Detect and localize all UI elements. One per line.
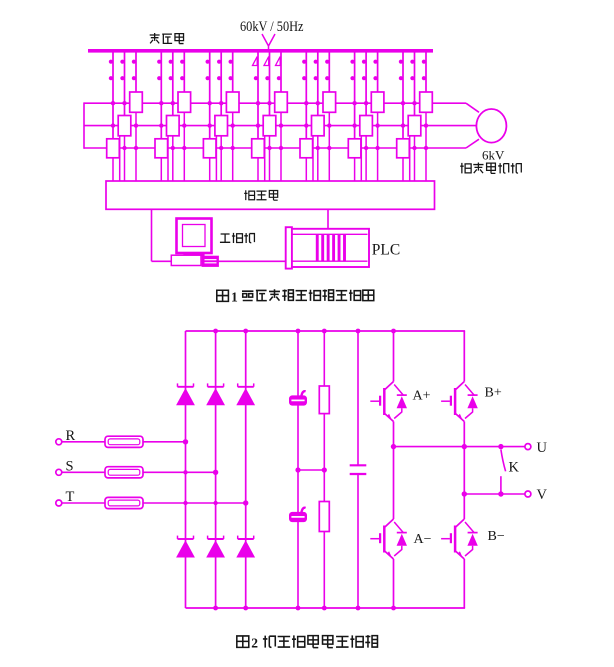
winding symbols group 5 (302, 60, 306, 64)
fuse R (105, 436, 143, 447)
phase chain bus 2 (84, 125, 476, 127)
fig2 top DC rail (186, 330, 466, 332)
control fibre drops group 5 (305, 158, 307, 181)
power cell group 6 row 1 (371, 92, 384, 112)
fig2 left rail / rectifier leg 1 (185, 331, 187, 608)
winding symbols group 3 (206, 60, 210, 64)
junction dots group 5 (304, 101, 308, 105)
winding symbols group 2 (157, 60, 161, 64)
snubber branch 2 (resistors) (323, 331, 325, 386)
input terminal R (56, 439, 62, 445)
PLC module stripes (316, 234, 319, 261)
transformer secondary group 4 wires (257, 51, 259, 139)
junction dots group 1 (111, 101, 115, 105)
phase chain bus 1 (84, 102, 466, 104)
power cell group 3 row 1 (226, 92, 239, 112)
transformer primary bus (88, 49, 433, 53)
power cell group 7 row 3 (397, 139, 410, 158)
B column wires (463, 331, 465, 382)
power cell group 5 row 2 (312, 116, 325, 136)
label 异步电动机 (460, 162, 521, 173)
power cell group 2 row 1 (178, 92, 191, 112)
svg-text:K: K (509, 460, 520, 476)
fuse T (105, 497, 143, 508)
junction dot R (183, 439, 188, 444)
power cell group 2 row 2 (167, 116, 180, 136)
power cell group 3 row 3 (203, 139, 216, 158)
fig2 bottom DC rail (186, 607, 466, 609)
junction dots group 7 (401, 101, 405, 105)
PLC inner rails (292, 233, 368, 235)
svg-text:1: 1 (231, 290, 238, 305)
svg-text:A+: A+ (413, 389, 431, 404)
monitor stand (184, 253, 204, 255)
junction dot S (213, 470, 218, 475)
phase chain bus 3 (84, 147, 466, 149)
wire controller to industrial PC / PLC (151, 209, 153, 261)
rectifier leg 2 (215, 331, 217, 608)
output line V (464, 493, 525, 495)
control fibre drops group 4 (257, 158, 259, 181)
IGBT U-A- lower left (385, 519, 394, 559)
fuse S (105, 467, 143, 478)
snubber link (298, 469, 324, 471)
label transformer 变压器 (150, 33, 184, 44)
svg-text:U: U (537, 440, 548, 456)
IGBT U-A+ upper left (385, 382, 394, 422)
control fibre drops group 2 (160, 158, 162, 181)
PLC box (286, 229, 369, 267)
transformer secondary group 7 wires (402, 51, 404, 139)
transformer secondary group 1 wires (112, 51, 114, 139)
rectifier diode bottom leg 3 (238, 538, 254, 540)
power cell group 1 row 1 (130, 92, 143, 112)
junction dots group 4 (256, 101, 260, 105)
power cell group 4 row 3 (252, 139, 265, 158)
transformer secondary group 5 wires (305, 51, 307, 139)
output line U (394, 446, 526, 448)
winding symbols group 7 (399, 60, 403, 64)
power cell group 4 row 2 (263, 116, 276, 136)
star-point vertical (left) (83, 102, 85, 148)
rectifier diode top leg 3 (238, 386, 254, 388)
keyboard/system unit (171, 255, 201, 265)
DC-link capacitor (357, 331, 359, 465)
power cell group 4 row 1 (275, 92, 288, 112)
winding symbols group 4 (253, 57, 258, 66)
motor 6kV induction motor (476, 109, 506, 143)
power cell group 6 row 3 (348, 139, 361, 158)
input wire T (62, 502, 246, 504)
bypass contact K (501, 450, 506, 472)
supply Y-drop to bus (262, 34, 275, 52)
wire controller to PLC drop (327, 209, 329, 229)
control fibre drops group 7 (402, 158, 404, 181)
IGBT U-B- lower right (456, 519, 465, 559)
caption 图2 功率单元电路结构 (237, 636, 249, 647)
control fibre drops group 3 (209, 158, 211, 181)
mouse unit (202, 256, 218, 266)
power cell group 2 row 3 (155, 139, 168, 158)
junction dots group 2 (159, 101, 163, 105)
power cell group 1 row 3 (107, 139, 120, 158)
terminal U (525, 444, 531, 450)
power cell group 7 row 2 (408, 116, 421, 136)
input wire R (62, 441, 186, 443)
input wire S (62, 471, 216, 473)
transformer secondary group 6 wires (354, 51, 356, 139)
junction dots group 3 (208, 101, 212, 105)
power cell group 6 row 2 (360, 116, 373, 136)
svg-text:A−: A− (414, 532, 432, 547)
rectifier diode bottom leg 1 (178, 538, 194, 540)
terminal V (525, 491, 531, 497)
rectifier leg 3 (245, 331, 247, 608)
transformer secondary group 3 wires (209, 51, 211, 139)
snubber branch 1 (electrolytic caps) (297, 331, 299, 396)
power cell group 7 row 1 (420, 92, 433, 112)
junction dot T (243, 500, 248, 505)
input terminal T (56, 500, 62, 506)
PLC left cap (286, 227, 292, 268)
power cell group 5 row 1 (323, 92, 336, 112)
junction dots group 6 (352, 101, 356, 105)
caption 图1 高压变频调速系统结构图 (217, 290, 229, 301)
winding symbols group 1 (109, 60, 113, 64)
rectifier diode top leg 2 (208, 386, 224, 388)
power cell group 3 row 2 (215, 116, 228, 136)
svg-text:V: V (537, 487, 548, 503)
svg-text:6kV: 6kV (482, 148, 505, 163)
control fibre drops group 6 (354, 158, 356, 181)
svg-text:B−: B− (488, 529, 505, 544)
controller box (106, 181, 435, 209)
svg-text:PLC: PLC (372, 242, 400, 259)
svg-text:60kV / 50Hz: 60kV / 50Hz (240, 19, 304, 35)
power cell group 1 row 2 (118, 116, 131, 136)
rectifier diode top leg 1 (178, 386, 194, 388)
svg-text:2: 2 (251, 636, 258, 651)
rectifier diode bottom leg 2 (208, 538, 224, 540)
label 工控机 (220, 233, 254, 243)
IGBT U-B+ upper right (456, 382, 465, 422)
industrial PC monitor (177, 219, 212, 254)
power cell group 5 row 3 (300, 139, 313, 158)
A column wires (393, 331, 395, 382)
winding symbols group 6 (350, 60, 354, 64)
control fibre drops group 1 (112, 158, 114, 181)
svg-text:B+: B+ (485, 386, 502, 401)
input terminal S (56, 469, 62, 475)
transformer secondary group 2 wires (160, 51, 162, 139)
label 控制器 (244, 190, 277, 200)
